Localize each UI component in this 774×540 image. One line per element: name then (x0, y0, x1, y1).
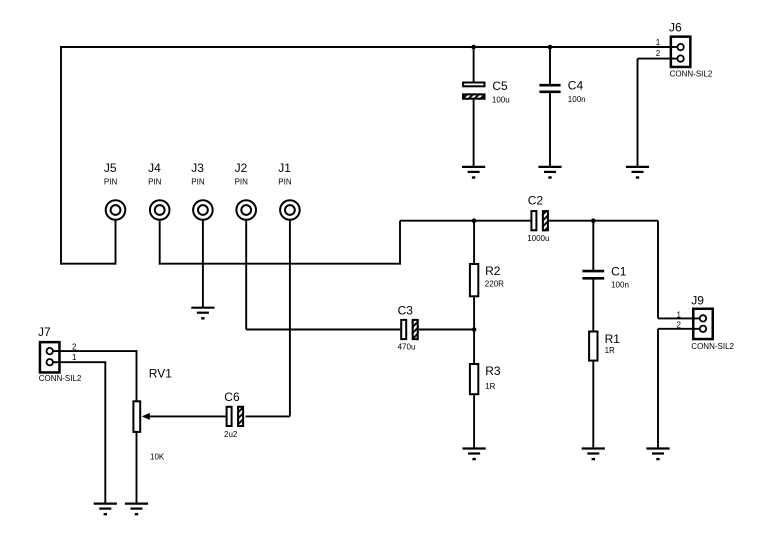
wire J7 pin1 to ground (53, 362, 105, 503)
svg-text:C2: C2 (528, 194, 544, 208)
capacitor C1 (582, 264, 628, 289)
capacitor C4 (539, 79, 585, 105)
svg-text:C4: C4 (568, 79, 584, 93)
wire left rail (60, 46, 62, 265)
pin J4 (148, 161, 169, 220)
svg-text:100u: 100u (492, 95, 510, 104)
svg-text:PIN: PIN (104, 177, 118, 186)
connector J9 (677, 293, 735, 351)
resistor R3 (470, 364, 501, 394)
ground (J9 pin2) (646, 449, 669, 460)
pin J5 (104, 161, 125, 220)
wire right drop to J9 pin1 (657, 221, 659, 319)
resistor R1 (589, 332, 620, 361)
node top rail / C4 (548, 45, 553, 50)
svg-text:C1: C1 (611, 264, 627, 278)
svg-text:2: 2 (677, 321, 682, 330)
capacitor C2 (527, 194, 549, 244)
ground (R3) (463, 449, 486, 460)
capacitor C6 (224, 390, 244, 439)
svg-text:R3: R3 (485, 364, 501, 378)
wire C1 to R1 (592, 279, 594, 330)
wire mid riser (399, 221, 401, 265)
svg-text:10K: 10K (150, 452, 165, 461)
svg-text:J7: J7 (38, 325, 51, 339)
pin J1 (278, 161, 299, 220)
ground (J3) (191, 308, 214, 319)
connector J6 (656, 21, 713, 79)
ground (J6 pin2) (626, 167, 649, 178)
svg-text:PIN: PIN (148, 177, 162, 186)
svg-text:R1: R1 (605, 332, 621, 346)
svg-text:2u2: 2u2 (224, 430, 238, 439)
wire J9 pin1 stub (658, 317, 699, 319)
node mid rail / C1 (591, 218, 596, 223)
ground (J7 pin1) (94, 504, 117, 515)
svg-text:C3: C3 (398, 304, 414, 318)
wire mid rail left of C2 (400, 220, 530, 222)
connector J7 (38, 325, 82, 383)
wire R2 top lead (473, 221, 475, 263)
wire J3 stub to ground (202, 221, 204, 308)
svg-text:1R: 1R (485, 382, 495, 391)
resistor R2 (470, 264, 504, 296)
wire J5 stub (115, 221, 117, 265)
wire J6 pin2 stub (638, 58, 678, 60)
svg-text:100n: 100n (568, 95, 586, 104)
wire R2-R3 link (473, 297, 475, 363)
svg-text:PIN: PIN (191, 177, 205, 186)
svg-text:1: 1 (656, 38, 661, 47)
wire J2 to C3 (246, 329, 400, 331)
wire C1 top lead (592, 221, 594, 270)
svg-text:1000u: 1000u (527, 234, 549, 243)
svg-text:1: 1 (677, 310, 682, 319)
RV1 wiper arrowhead (142, 413, 150, 420)
svg-text:220R: 220R (485, 279, 504, 288)
wire RV1 bottom lead (136, 432, 138, 503)
svg-text:2: 2 (656, 49, 661, 58)
wire J6 pin2 to ground (637, 59, 639, 167)
svg-text:J5: J5 (104, 161, 117, 175)
svg-text:C6: C6 (224, 390, 240, 404)
node top rail / C5 (471, 45, 476, 50)
svg-text:J2: J2 (235, 161, 248, 175)
svg-text:R2: R2 (485, 264, 501, 278)
wire RV1 wiper to C6 (149, 415, 226, 417)
node mid rail / R2 (472, 218, 477, 223)
wire mid rail right of C2 (549, 220, 658, 222)
svg-text:J6: J6 (669, 21, 682, 35)
ground (R1) (582, 449, 605, 460)
svg-text:2: 2 (72, 342, 77, 351)
ground (RV1) (125, 504, 148, 515)
wire C4 bottom lead (549, 93, 551, 167)
svg-text:100n: 100n (611, 280, 629, 289)
capacitor C3 (398, 304, 419, 352)
wire C5 top lead (473, 47, 475, 82)
pin J3 (191, 161, 212, 220)
svg-text:J4: J4 (148, 161, 161, 175)
pin J2 (235, 161, 256, 220)
wire R3 bottom lead (473, 395, 475, 448)
svg-text:1: 1 (72, 353, 77, 362)
svg-text:C5: C5 (492, 79, 508, 93)
potentiometer RV1 (133, 367, 172, 462)
wire R1 bottom lead (592, 362, 594, 448)
svg-text:CONN-SIL2: CONN-SIL2 (39, 374, 82, 383)
wire J7 pin2 to RV1 top (53, 351, 137, 400)
svg-text:J3: J3 (191, 161, 204, 175)
wire bottom-left link (60, 263, 115, 265)
svg-text:470u: 470u (398, 343, 416, 352)
wire J1 stub (289, 221, 291, 417)
ground (C5) (462, 167, 485, 178)
svg-text:RV1: RV1 (149, 367, 172, 381)
wire J9 pin2 stub (658, 328, 699, 330)
wire top rail (61, 46, 677, 48)
svg-text:J1: J1 (278, 161, 291, 175)
capacitor C5 (462, 79, 510, 105)
wire C4 top lead (549, 47, 551, 84)
wire J4 horizontal (159, 263, 401, 265)
node C3 / R2 / R3 (472, 327, 477, 332)
ground (C4) (538, 167, 561, 178)
wire J4 stub (159, 221, 161, 265)
svg-text:CONN-SIL2: CONN-SIL2 (670, 70, 713, 79)
svg-text:PIN: PIN (278, 177, 292, 186)
wire J2 stub (245, 221, 247, 330)
svg-text:J9: J9 (691, 293, 704, 307)
svg-text:1R: 1R (605, 346, 615, 355)
svg-text:PIN: PIN (235, 177, 249, 186)
wire C6 to J1 (246, 415, 290, 417)
wire C5 bottom lead (473, 100, 475, 167)
wire J9 pin2 to ground (657, 329, 659, 448)
wire C3 to node (419, 329, 475, 331)
svg-text:CONN-SIL2: CONN-SIL2 (691, 342, 734, 351)
